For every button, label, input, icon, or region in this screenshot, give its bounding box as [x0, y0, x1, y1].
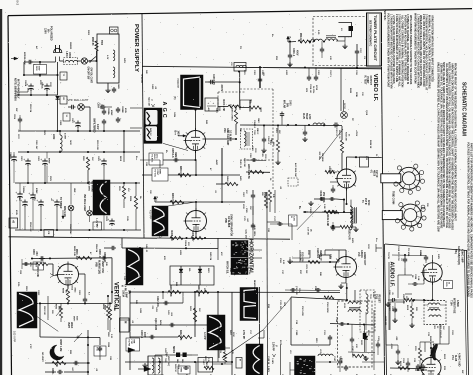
svg-text:NPO: NPO — [29, 262, 31, 267]
takeoff coil — [366, 294, 368, 314]
tube V1 1st video IF — [337, 169, 356, 188]
svg-text:3.3K: 3.3K — [110, 334, 112, 339]
waveform box horiz pulses — [240, 288, 258, 321]
power supply bottom divider — [9, 237, 158, 238]
svg-text:V6A: V6A — [223, 128, 226, 133]
svg-text:OHMS CT: OHMS CT — [319, 250, 321, 261]
horiz xfrm bot caps — [339, 359, 341, 361]
vif cap bottom — [332, 225, 334, 227]
svg-text:C806 .0047: C806 .0047 — [51, 368, 54, 375]
svg-text:C804: C804 — [97, 103, 100, 109]
svg-text:WITH ANTENNA TERMINALS SHORTED: WITH ANTENNA TERMINALS SHORTED TO THE CH… — [409, 15, 412, 85]
svg-text:C180 1K: C180 1K — [267, 356, 269, 365]
svg-text:10K: 10K — [249, 206, 251, 210]
svg-text:HORIZ OUT: HORIZ OUT — [363, 252, 366, 266]
svg-text:VERT: VERT — [67, 322, 69, 329]
bus h230 — [15, 229, 141, 231]
svg-text:L103: L103 — [343, 303, 345, 309]
sync R401 — [170, 200, 184, 203]
vmid c410 — [130, 324, 219, 326]
audio res bot — [398, 366, 410, 369]
vert box f31 — [94, 346, 106, 356]
svg-text:C312: C312 — [391, 306, 393, 312]
power supply right border — [142, 14, 144, 238]
svg-text:+: + — [36, 199, 38, 203]
svg-text:600V: 600V — [38, 66, 40, 71]
svg-text:600V: 600V — [242, 204, 244, 209]
agc R406 vert — [234, 110, 237, 124]
vif c313 cap — [333, 124, 335, 126]
svg-text:INTERLOCK: INTERLOCK — [23, 52, 25, 65]
svg-text:OUTPUT: OUTPUT — [369, 76, 371, 86]
svg-text:C813: C813 — [37, 290, 39, 296]
wire v124 mid — [123, 131, 125, 152]
vert r807b — [45, 362, 90, 364]
audio gnd b — [397, 360, 399, 362]
svg-text:R414: R414 — [159, 320, 162, 326]
svg-text:C181 620: C181 620 — [295, 286, 297, 296]
caps y222 — [24, 207, 26, 231]
svg-text:R412 62K: R412 62K — [179, 330, 182, 341]
svg-text:C311: C311 — [451, 330, 453, 336]
vert v100 low — [99, 338, 101, 346]
svg-text:R806: R806 — [102, 304, 104, 310]
svg-text:C803: C803 — [32, 249, 34, 255]
tube socket diagram upper — [398, 167, 420, 189]
agc v222 — [221, 148, 223, 184]
svg-text:40MF: 40MF — [110, 110, 113, 116]
horiz bottom wires — [316, 361, 337, 363]
svg-text:4.5MC AUD: 4.5MC AUD — [457, 353, 460, 367]
svg-text:S.B.: S.B. — [229, 268, 231, 273]
waveform box vert osc saw — [126, 248, 143, 285]
svg-text:C405: C405 — [139, 308, 142, 314]
svg-text:IF, TEST: IF, TEST — [363, 76, 365, 86]
svg-text:MYLAR: MYLAR — [282, 100, 285, 109]
svg-text:GMV: GMV — [257, 118, 259, 123]
svg-text:R40 2.2: R40 2.2 — [149, 128, 152, 136]
svg-text:56K: 56K — [442, 326, 444, 330]
coil L801 boxed — [64, 58, 78, 65]
svg-text:TO: TO — [239, 46, 241, 49]
svg-text:TO PIN: TO PIN — [128, 339, 130, 346]
sync wire diag — [168, 202, 196, 206]
svg-text:5-25: 5-25 — [317, 30, 319, 35]
svg-text:D801: D801 — [68, 53, 70, 59]
svg-text:2.5V PP: 2.5V PP — [242, 330, 245, 340]
svg-text:C813: C813 — [71, 285, 73, 291]
svg-text:C805A: C805A — [41, 82, 44, 89]
svg-text:R410 470K: R410 470K — [197, 285, 200, 297]
svg-text:R184 2.2M: R184 2.2M — [326, 215, 329, 226]
svg-text:5%: 5% — [249, 100, 251, 103]
horiz xfrm bottom — [348, 351, 375, 354]
svg-text:L803: L803 — [179, 250, 181, 256]
svg-text:12K: 12K — [105, 262, 107, 266]
svg-text:NOTE: B805 & B806: NOTE: B805 & B806 — [14, 78, 17, 101]
svg-text:R169 390W: R169 390W — [326, 302, 328, 313]
agc terminal box — [205, 98, 218, 111]
svg-text:1ST IF: 1ST IF — [375, 170, 378, 178]
hafc coil stack — [351, 207, 353, 218]
svg-text:R401 8.2M: R401 8.2M — [171, 193, 174, 205]
wire plug right — [60, 60, 65, 62]
vert size pot — [59, 306, 62, 318]
frame top border — [8, 9, 472, 16]
vmid c409 — [130, 336, 178, 338]
svg-text:C178 .033: C178 .033 — [279, 300, 281, 310]
agc tube top wire — [195, 110, 197, 131]
tv screen photo lower — [231, 258, 248, 275]
vmid diag wire — [222, 330, 263, 358]
svg-text:C809: C809 — [107, 342, 109, 348]
svg-text:R802 2.2K: R802 2.2K — [73, 246, 75, 257]
svg-text:R400 2.7M: R400 2.7M — [222, 100, 225, 111]
vert moon crescent — [50, 345, 64, 360]
vert left t — [22, 263, 36, 265]
horiz out transformer box — [338, 301, 373, 367]
vif coil2 — [325, 39, 338, 41]
svg-text:47K: 47K — [220, 252, 223, 256]
svg-text:41V PP: 41V PP — [149, 210, 153, 219]
svg-text:ON VOL CONT: ON VOL CONT — [90, 68, 92, 84]
ecap bank 1 — [30, 84, 32, 87]
hafc diag pointer — [297, 206, 321, 230]
svg-text:117V: 117V — [17, 134, 19, 139]
svg-text:7 OF: 7 OF — [130, 339, 132, 344]
svg-text:400V: 400V — [295, 50, 298, 56]
vif tube wires — [346, 157, 348, 167]
svg-text:R807 1.2M: R807 1.2M — [59, 340, 62, 352]
svg-text:TO AGC: TO AGC — [151, 154, 154, 163]
svg-text:8.2K: 8.2K — [282, 260, 284, 265]
svg-text:.0082: .0082 — [218, 106, 220, 112]
audio section left border — [385, 244, 387, 375]
video IF top border — [142, 66, 382, 69]
svg-text:220K: 220K — [232, 332, 234, 337]
svg-text:C812B: C812B — [97, 186, 99, 193]
vert H box — [120, 318, 130, 332]
svg-text:100V: 100V — [143, 332, 145, 338]
svg-text:R183 4.7K: R183 4.7K — [348, 229, 351, 240]
hafc r184 — [324, 210, 337, 213]
caps col x124 — [117, 107, 119, 109]
resistor R fuse — [95, 41, 98, 51]
svg-text:B++: B++ — [160, 233, 164, 238]
tv screen photo upper — [231, 241, 248, 258]
svg-text:350V: 350V — [49, 176, 51, 182]
svg-text:IN TV5-454 ONLY: IN TV5-454 ONLY — [16, 79, 19, 99]
svg-text:C314 .68: C314 .68 — [309, 84, 312, 93]
svg-text:R514 220: R514 220 — [299, 33, 302, 44]
vert cap c810 — [73, 362, 75, 364]
vert v88 — [87, 330, 89, 375]
svg-text:POWER SUPPLY: POWER SUPPLY — [133, 24, 139, 72]
svg-text:R406 4.7MEG: R406 4.7MEG — [231, 108, 234, 121]
svg-text:C803A: C803A — [122, 290, 125, 297]
svg-text:640V: 640V — [351, 238, 354, 244]
svg-text:L802: L802 — [52, 134, 54, 140]
svg-text:125V: 125V — [367, 244, 369, 249]
svg-text:C808A: C808A — [107, 108, 110, 115]
svg-text:C128 800: C128 800 — [316, 248, 318, 259]
svg-text:R404 3.9K: R404 3.9K — [226, 176, 229, 186]
audio section right border — [467, 251, 469, 376]
svg-text:2 LINE VOLTAGE MAINTAINED AT 1: 2 LINE VOLTAGE MAINTAINED AT 120V AC SUP… — [395, 14, 398, 82]
horiz xfrm diode — [363, 333, 366, 339]
tube V8B vert osc — [58, 264, 79, 285]
svg-text:C313: C313 — [402, 358, 404, 364]
waveform box AGC gate — [181, 75, 204, 110]
svg-text:R814 2.2K: R814 2.2K — [29, 222, 32, 232]
tv screen photo horiz — [295, 356, 316, 375]
svg-text:R300 1.2M 56: R300 1.2M 56 — [247, 164, 249, 179]
svg-text:10MF: 10MF — [125, 292, 127, 298]
svg-text:C809 .02: C809 .02 — [98, 249, 100, 259]
svg-text:+: + — [23, 158, 25, 162]
audio caps mid — [394, 307, 396, 309]
ps fb box — [44, 230, 54, 237]
audio top wire — [392, 254, 426, 257]
svg-text:R176 56K: R176 56K — [305, 265, 307, 275]
svg-text:2000V: 2000V — [220, 85, 222, 92]
vbot res — [223, 352, 226, 362]
svg-text:TO PIX: TO PIX — [387, 252, 389, 259]
vert r807 row — [40, 336, 100, 339]
vert below tube — [67, 285, 69, 289]
horiz cath — [345, 278, 347, 284]
tuner dashed enclosure — [313, 17, 367, 66]
svg-text:T104: T104 — [450, 300, 453, 306]
svg-text:TUNER PLATE CIRCUIT: TUNER PLATE CIRCUIT — [373, 15, 377, 61]
svg-text:.0022: .0022 — [100, 104, 102, 110]
svg-text:C410 .0039: C410 .0039 — [154, 318, 157, 331]
svg-text:22K: 22K — [415, 307, 417, 311]
wire stubs — [240, 249, 262, 251]
horiz xfrm mid row — [330, 324, 375, 326]
svg-text:SISTOR VALUES IN OHMS K=1000.: SISTOR VALUES IN OHMS K=1000. ALL RESIST… — [442, 62, 445, 227]
svg-text:1W 5MW: 1W 5MW — [321, 153, 323, 161]
svg-text:C412 .001: C412 .001 — [156, 296, 159, 307]
svg-text:R415: R415 — [219, 348, 222, 354]
agc box2 — [152, 168, 168, 181]
svg-text:TO VOL: TO VOL — [154, 169, 156, 178]
svg-text:F801: F801 — [87, 30, 89, 36]
svg-text:50V: 50V — [51, 310, 53, 314]
svg-text:10%: 10% — [298, 288, 300, 292]
svg-text:L801: L801 — [65, 52, 67, 58]
svg-text:C401 .02: C401 .02 — [239, 160, 242, 169]
gnd below transformer — [107, 83, 109, 88]
vif c314 caps — [308, 68, 310, 76]
svg-text:FB: FB — [47, 232, 49, 235]
svg-text:R812 2.2K: R812 2.2K — [63, 206, 65, 217]
svg-text:C404 .05: C404 .05 — [145, 244, 148, 253]
svg-text:ON-OFF SW: ON-OFF SW — [87, 67, 89, 81]
resistor R815b — [122, 186, 125, 199]
svg-text:VOLTAGES TAKEN WITH CONTROL SE: VOLTAGES TAKEN WITH CONTROL SETTINGS FOR… — [467, 142, 470, 297]
diode ps — [56, 96, 60, 99]
svg-text:R808: R808 — [33, 310, 35, 316]
ps box b1 — [60, 96, 67, 104]
vert bus 303 — [37, 302, 112, 304]
svg-text:C805 1.8: C805 1.8 — [171, 148, 173, 158]
svg-text:6LU8: 6LU8 — [454, 355, 457, 362]
svg-text:+: + — [208, 101, 210, 105]
vert diag pointer — [35, 315, 59, 332]
vif dashed agc boundary — [240, 88, 273, 90]
svg-text:R303: R303 — [349, 88, 351, 94]
vert tube V8B wires — [54, 275, 58, 277]
svg-text:UNLESS OTHERWISE SPECIFIED ALL: UNLESS OTHERWISE SPECIFIED ALL CAPACITOR… — [437, 62, 440, 232]
agc cap C408 — [205, 81, 240, 83]
fuse lamp ps — [81, 58, 87, 64]
ecap mid — [77, 121, 79, 124]
svg-text:C304 1.5: C304 1.5 — [267, 136, 270, 145]
vmid to-box — [126, 338, 140, 351]
svg-text:1 TAKEN FROM POINT INDICATED T: 1 TAKEN FROM POINT INDICATED TO CHASSIS … — [416, 14, 419, 88]
svg-text:1.5K: 1.5K — [417, 276, 419, 281]
vbot diode blobs — [176, 353, 180, 358]
vmid bottom bus — [125, 361, 232, 363]
hafc box 1241 — [289, 215, 298, 226]
ps extra caps2 — [13, 155, 15, 158]
svg-text:V8B: V8B — [95, 262, 98, 267]
svg-text:TO SND: TO SND — [407, 248, 409, 257]
svg-text:R805: R805 — [55, 304, 57, 310]
svg-text:R408 40K: R408 40K — [170, 231, 173, 242]
vif coil1 — [311, 39, 322, 41]
svg-text:(1C): (1C) — [156, 154, 158, 158]
agc R404 — [225, 182, 238, 185]
vif cap right — [356, 49, 358, 51]
svg-text:POSITION WITH NO SIGNAL INPUT: POSITION WITH NO SIGNAL INPUT TO THE REC… — [403, 15, 406, 81]
vmid v130 — [129, 292, 131, 370]
hafc cap row — [310, 201, 312, 203]
svg-text:4 TUBES ON CHANNEL 13 OR CHANN: 4 TUBES ON CHANNEL 13 OR CHANNEL 6 WHICH… — [406, 14, 409, 85]
svg-text:V PP: V PP — [29, 344, 31, 349]
caps col x104 — [103, 109, 105, 111]
vert 96v box — [33, 262, 44, 270]
svg-text:10%: 10% — [405, 296, 407, 300]
svg-text:C304 1.5: C304 1.5 — [253, 120, 256, 129]
svg-text:140V: 140V — [69, 140, 72, 145]
agc dash h2 — [240, 159, 273, 161]
svg-text:R167 470K: R167 470K — [301, 306, 304, 317]
sync bus y248 — [122, 247, 218, 250]
svg-text:+255V: +255V — [355, 130, 357, 137]
vmid c412 — [130, 302, 183, 304]
svg-text:VHF DIAL LIGHT: VHF DIAL LIGHT — [68, 98, 89, 102]
scan edge strip left — [0, 9, 2, 375]
svg-text:1/2 6LB08: 1/2 6LB08 — [227, 216, 230, 228]
tube V7A audio — [421, 358, 441, 378]
svg-text:SW801: SW801 — [69, 42, 71, 50]
svg-text:1241: 1241 — [293, 216, 296, 222]
svg-text:C806A: C806A — [184, 240, 187, 247]
svg-text:+: + — [213, 101, 215, 105]
audio swoosh — [431, 344, 438, 360]
horiz cap 330 — [329, 335, 331, 337]
vmid v195 — [194, 292, 196, 337]
hafc r183 row — [330, 226, 332, 228]
ps left arrow — [14, 57, 18, 60]
audio bot cap blobs — [417, 364, 419, 366]
svg-text:POINT: POINT — [366, 77, 368, 85]
svg-text:80MF: 80MF — [48, 158, 50, 164]
svg-text:450V: 450V — [15, 210, 18, 216]
svg-text:1.5K 5W: 1.5K 5W — [307, 227, 309, 235]
bus left vertical — [57, 62, 59, 95]
svg-text:R813: R813 — [107, 200, 109, 206]
vert v120 long — [119, 296, 121, 375]
svg-text:AGC BUS CAP: AGC BUS CAP — [294, 163, 297, 178]
fuse holder top — [110, 27, 119, 34]
svg-text:C812: C812 — [105, 216, 107, 222]
svg-text:V: V — [150, 99, 154, 101]
svg-text:220K: 220K — [355, 92, 357, 98]
svg-text:V7A: V7A — [451, 355, 454, 360]
svg-text:R811 120K: R811 120K — [96, 140, 98, 151]
svg-text:UNFILTERED: UNFILTERED — [93, 118, 95, 133]
horiz xfrm cap2 — [351, 337, 353, 339]
svg-text:C805: C805 — [59, 120, 61, 126]
sync tube top — [195, 202, 197, 211]
sync res row — [157, 238, 290, 239]
vif grid in — [330, 181, 337, 183]
svg-text:GMV: GMV — [270, 138, 272, 143]
ps extra risers — [70, 183, 72, 205]
svg-text:1W: 1W — [229, 104, 231, 107]
svg-text:NO SPARK: NO SPARK — [90, 181, 93, 192]
svg-text:10%: 10% — [17, 282, 19, 286]
svg-text:R810: R810 — [119, 156, 121, 162]
tube V5B sync sep — [186, 211, 207, 232]
vif r 2.2m — [328, 210, 339, 213]
svg-text:SR801: SR801 — [172, 346, 174, 354]
vif gnd mid — [304, 125, 306, 130]
main right border — [382, 67, 385, 375]
svg-text:56K: 56K — [91, 157, 93, 161]
svg-text:R803 10K: R803 10K — [43, 306, 45, 316]
vmid black arrow — [144, 367, 151, 372]
svg-text:PARTS LIST FOR PROPER REPLACEM: PARTS LIST FOR PROPER REPLACEMENT PART N… — [469, 143, 472, 298]
svg-text:C417: C417 — [202, 360, 205, 366]
ps c800 box — [34, 65, 47, 75]
svg-text:1K: 1K — [65, 290, 67, 293]
svg-text:C184: C184 — [335, 317, 338, 323]
svg-text:ALL OTHER CONTROLS IN NORMAL O: ALL OTHER CONTROLS IN NORMAL OPERATING P… — [401, 15, 404, 87]
coil L802 — [60, 135, 62, 152]
horiz grid row — [289, 259, 291, 261]
waveform box sync sep — [152, 206, 168, 236]
svg-text:V10: V10 — [357, 252, 360, 257]
svg-text:C309 220: C309 220 — [384, 316, 386, 326]
svg-text:FROM THE FRONT OF THE RECEIVER: FROM THE FRONT OF THE RECEIVER CHASSIS W… — [453, 63, 456, 221]
svg-text:W101: W101 — [360, 340, 362, 346]
svg-text:R309 1K: R309 1K — [429, 336, 431, 345]
svg-text:C175 .047: C175 .047 — [299, 252, 302, 262]
sel diode box — [170, 266, 214, 285]
svg-text:R803 470K: R803 470K — [179, 166, 182, 178]
svg-text:9Z14: 9Z14 — [367, 200, 370, 206]
svg-text:ARROWS ON CONTROLS INDICATE CW: ARROWS ON CONTROLS INDICATE CW ROTATION … — [451, 63, 454, 230]
vif T1 coils — [350, 206, 352, 218]
frame left border — [8, 16, 12, 375]
vif main bus — [259, 66, 261, 68]
vif r318 — [341, 126, 343, 140]
svg-text:68K: 68K — [272, 142, 274, 146]
